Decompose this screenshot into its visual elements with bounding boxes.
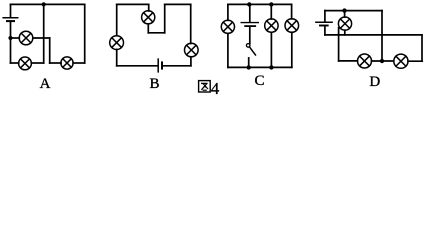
battery C short plate <box>245 25 255 27</box>
wire C bottom <box>228 66 292 68</box>
wire C right branch 1 upper <box>270 4 272 19</box>
wire B right upper vertical <box>190 4 192 43</box>
lamp L5 <box>185 43 199 57</box>
wire A lamp L3 right <box>73 62 85 64</box>
lamp L11 <box>358 54 372 68</box>
node A-top junction dot <box>42 2 46 6</box>
wire C left lower <box>227 33 229 67</box>
lamp L12 <box>394 54 408 68</box>
wire A right vertical <box>84 4 86 63</box>
lamp L3 <box>61 57 73 69</box>
caption 图4 : hanzi drawn as strokes (no CJK font available) <box>199 81 211 92</box>
wire D left upper (to battery) <box>324 11 326 22</box>
battery A long plate <box>3 17 18 19</box>
svg-text:B: B <box>149 76 159 92</box>
wire D bottom right <box>408 60 422 62</box>
lamp L9 <box>285 19 299 33</box>
wire B left lower vertical <box>116 49 118 65</box>
wire A left upper (to battery) <box>10 4 12 17</box>
wire B right lower vertical <box>190 57 192 66</box>
wire C right branch 1 lower <box>270 32 272 67</box>
wire C right edge lower <box>291 32 293 67</box>
wire D bottom middle <box>372 60 394 62</box>
battery C long plate <box>241 22 258 24</box>
svg-text:4: 4 <box>211 79 220 96</box>
lamp L1 <box>19 31 33 45</box>
wire B bottom right <box>163 65 191 67</box>
wire C left upper <box>227 4 229 20</box>
wire A second vertical <box>49 38 51 63</box>
wire B step vertical <box>164 4 166 32</box>
node C-bottom junction dot 2 <box>269 65 273 69</box>
battery D short plate <box>320 25 328 27</box>
node C-bottom junction dot 1 <box>247 65 251 69</box>
switch S pivot <box>246 44 250 48</box>
battery D long plate <box>316 21 332 23</box>
wire B stub to lamp L4 <box>148 4 150 11</box>
wire B top left <box>117 3 149 5</box>
wire A middle vertical <box>43 4 45 63</box>
wire C middle (battery to switch) <box>249 27 251 44</box>
wire D stub lamp L10 to rail <box>344 30 346 35</box>
battery A short plate <box>7 20 14 22</box>
wire D top <box>325 10 382 12</box>
wire D stub dot to lamp L10 <box>344 11 346 18</box>
lamp L4 <box>142 11 155 24</box>
wire B step horizontal <box>148 32 164 34</box>
图 outer box <box>199 81 211 92</box>
wire D left drop vertical <box>338 28 340 61</box>
wire C middle upper (dot to battery) <box>249 4 251 21</box>
图 inner strokes (冬 approximation) <box>201 82 208 84</box>
wire B stub below lamp L4 <box>147 24 149 33</box>
wire B bottom left <box>117 65 158 67</box>
wire B top right <box>165 3 191 5</box>
wire A left lower vertical <box>10 38 12 63</box>
lamp L10 <box>338 17 351 30</box>
lamp L2 <box>19 57 32 70</box>
node C-top junction dot 1 <box>247 2 251 6</box>
wire C top <box>228 3 292 5</box>
wire A left mid (battery to node) <box>10 22 12 38</box>
wire A top <box>11 3 85 5</box>
wire C middle lower (switch to bottom) <box>248 58 250 68</box>
wire C right edge upper <box>291 4 293 19</box>
svg-text:D: D <box>369 74 380 90</box>
node C-top junction dot 2 <box>269 2 273 6</box>
svg-text:A: A <box>40 76 51 92</box>
wire A middle vertical foot <box>31 62 43 64</box>
node D-top junction dot <box>342 8 346 12</box>
battery B long plate <box>157 59 159 72</box>
wire D middle rail <box>325 34 422 36</box>
lamp L6 <box>110 36 124 50</box>
wire A lamp L1 right <box>33 37 50 39</box>
wire D right drop vertical <box>381 11 383 61</box>
switch S blade <box>249 47 255 55</box>
wire A second vertical foot <box>50 62 61 64</box>
wire D left lower (battery to rail) <box>324 26 326 35</box>
wire B left upper vertical <box>116 4 118 35</box>
svg-text:C: C <box>254 73 264 89</box>
wire A node to lamp L1 <box>11 37 20 39</box>
wire D right vertical <box>421 35 423 61</box>
node A junction dot <box>8 36 12 40</box>
node D-bottom junction dot <box>380 59 384 63</box>
lamp L8 <box>265 19 278 32</box>
wire D bottom left <box>339 60 358 62</box>
lamp L7 <box>221 20 234 33</box>
wire A lamp L2 left <box>11 62 19 64</box>
battery B short plate <box>161 62 163 68</box>
